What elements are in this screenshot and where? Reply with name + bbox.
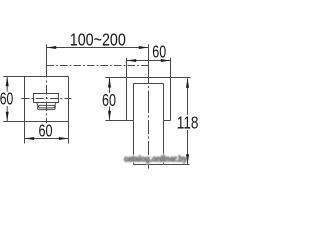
node spout lip outer: [36, 103, 56, 110]
node spout body front: [34, 94, 59, 103]
wire: right body left edge: [126, 58, 128, 121]
wire: left 60 dimension line lower: [6, 106, 8, 122]
wire: left square top edge with left extension: [3, 76, 68, 78]
wire: tube bottom edge with right extension: [134, 164, 190, 166]
node left view horizontal centerline: [21, 98, 71, 100]
wire: 118 dimension line lower: [187, 130, 189, 164]
svg-text:60: 60: [0, 89, 13, 109]
svg-text:catalog.onliner.by: catalog.onliner.by: [124, 153, 187, 163]
svg-text:60: 60: [152, 41, 166, 61]
wire: extension below square left: [24, 122, 26, 144]
wire: left square right edge: [68, 77, 70, 122]
wire: top right 60 dimension line: [127, 60, 171, 62]
node left 60 arrow up: [6, 77, 9, 87]
node 118 arrow down: [186, 154, 189, 164]
wire: right body top edge with extensions: [106, 77, 191, 79]
wire: right body bottom edge right segment: [164, 120, 171, 122]
wire: tube bottom extension repaint over watermark: [164, 164, 190, 166]
wire: bottom 60 dimension line: [25, 138, 69, 140]
wire: 118 dimension lower line repaint over watermark: [187, 150, 189, 164]
node bottom 60 arrow right: [59, 137, 69, 140]
node top 60 arrow right: [161, 59, 171, 62]
node right view vertical centerline: [148, 44, 150, 168]
node middle 60 arrow up: [108, 78, 111, 88]
wire: tube right edge: [163, 84, 165, 165]
wire: left square bottom edge with left extension: [3, 121, 68, 123]
wire: left square left edge: [24, 77, 26, 122]
node 118 arrow up: [186, 78, 189, 88]
wire: right body right edge: [170, 58, 172, 121]
wire: tube top edge: [134, 83, 164, 85]
wire: right body bottom edge left segment: [105, 120, 133, 122]
svg-text:60: 60: [39, 120, 53, 140]
svg-text:100~200: 100~200: [70, 29, 126, 49]
wire: middle 60 dimension line upper: [109, 78, 111, 93]
node 100~200 arrow right: [139, 46, 149, 49]
node middle 60 arrow down: [108, 111, 111, 121]
wire: extension below square right: [68, 122, 70, 144]
wire: middle 60 dimension line lower: [109, 107, 111, 120]
svg-text:118: 118: [177, 113, 199, 133]
node connecting horizontal centerline: [47, 65, 150, 67]
wire: tube left edge: [133, 84, 135, 165]
svg-text:60: 60: [102, 90, 116, 110]
wire: 100~200 dimension line: [47, 47, 149, 49]
node top 60 arrow left: [127, 59, 137, 62]
node 118 arrow down repaint over watermark: [186, 154, 189, 164]
node spout lip inner: [38, 105, 54, 108]
wire: 118 dimension line upper: [187, 78, 189, 115]
node left 60 arrow down: [6, 112, 9, 122]
node bottom 60 arrow left: [25, 137, 35, 140]
node 100~200 arrow left: [47, 46, 57, 49]
node left view vertical centerline: [46, 44, 48, 123]
wire: left 60 dimension line upper: [6, 77, 8, 92]
